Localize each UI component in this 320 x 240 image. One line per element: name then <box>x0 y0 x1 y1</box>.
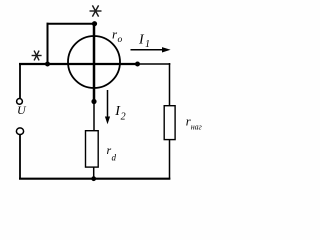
wire: right vertical load bottom to rail <box>169 140 171 180</box>
svg-text:d: d <box>112 153 117 163</box>
wire: main horizontal (left to node) <box>19 63 138 65</box>
terminal upper <box>17 99 23 105</box>
wire: main horizontal thin right segment <box>138 63 171 65</box>
node: dot on bottom rail <box>91 176 96 181</box>
node: right dot on main wire <box>135 62 140 67</box>
wire: top loop left vertical <box>47 23 49 65</box>
polarity asterisk top <box>90 5 102 16</box>
svg-text:2: 2 <box>121 112 126 123</box>
wire: r_d bottom to rail <box>93 167 95 179</box>
svg-text:наг: наг <box>191 122 202 131</box>
wire: top loop horizontal <box>47 23 96 25</box>
wire: right vertical to load top <box>169 63 171 106</box>
resistor r_d body <box>86 131 99 167</box>
current arrow I2 <box>105 90 110 124</box>
wire: bottom rail <box>19 178 170 180</box>
wire: vertical to r_d top <box>93 102 95 131</box>
terminal lower <box>16 128 23 135</box>
svg-text:1: 1 <box>145 39 150 50</box>
node: dot below generator <box>91 99 96 104</box>
node: left junction dot <box>45 62 50 67</box>
node: top junction dot <box>92 21 97 26</box>
generator element circle <box>68 36 120 88</box>
svg-text:U: U <box>17 103 27 117</box>
svg-text:o: o <box>118 35 123 45</box>
current arrow I1 <box>131 47 171 52</box>
wire: vertical through generator <box>93 24 96 102</box>
polarity asterisk left <box>32 51 42 61</box>
wire: left vertical upper (to input terminal) <box>19 63 21 98</box>
resistor r_nag body <box>164 106 175 140</box>
wire: left vertical lower (terminal to rail) <box>19 134 21 179</box>
